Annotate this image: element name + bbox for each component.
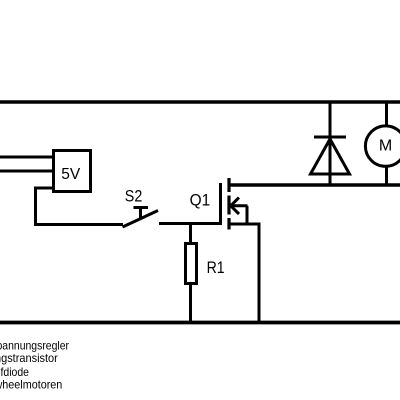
- wire Q1 drain rail to right edge: [228, 183, 400, 187]
- wire battery feed upper into 5V regulator: [0, 156, 53, 159]
- wire battery feed lower into 5V regulator: [0, 170, 53, 173]
- transistor Q1 channel segment drain: [227, 178, 230, 192]
- wire Q1 source down to ground rail: [258, 224, 261, 323]
- wire switch to gate node: [159, 222, 222, 225]
- svg-text:R1: R1: [207, 258, 225, 277]
- wire top supply rail: [0, 100, 400, 104]
- transistor Q1 body arrow head: [231, 198, 239, 215]
- wire bottom ground rail: [0, 321, 400, 325]
- wire motor top: [385, 102, 388, 127]
- transistor Q1 body arrow shaft: [231, 204, 248, 207]
- voltage regulator U1 box 5V: [54, 151, 91, 192]
- svg-text:M: M: [379, 138, 392, 155]
- transistor Q1 channel segment body: [227, 196, 230, 215]
- diode D1 vertical wire: [329, 102, 332, 185]
- wire motor bottom: [385, 165, 388, 185]
- wire resistor R1 to ground rail: [189, 284, 192, 323]
- transistor Q1 channel segment source: [227, 218, 230, 230]
- diode D1 cathode bar: [314, 136, 346, 139]
- wire gate node down to resistor R1: [189, 224, 192, 245]
- transistor Q1 body to source connection: [246, 206, 249, 226]
- switch S2 blade: [123, 211, 159, 228]
- svg-text:S2: S2: [125, 186, 143, 205]
- wire 5V regulator output down to switch: [36, 188, 124, 225]
- resistor R1 box: [186, 244, 197, 284]
- motor M circle: [365, 126, 400, 166]
- svg-text:Q1: Q1: [190, 191, 211, 210]
- diode D1 anode triangle: [311, 139, 350, 174]
- svg-text:wheelmotoren: wheelmotoren: [0, 378, 62, 392]
- transistor Q1 gate bar: [219, 183, 222, 225]
- svg-text:ngstransistor: ngstransistor: [0, 351, 58, 365]
- switch S2 pushbutton actuator: [134, 207, 149, 220]
- wire Q1 source horizontal: [228, 223, 261, 226]
- svg-text:5V: 5V: [61, 166, 80, 183]
